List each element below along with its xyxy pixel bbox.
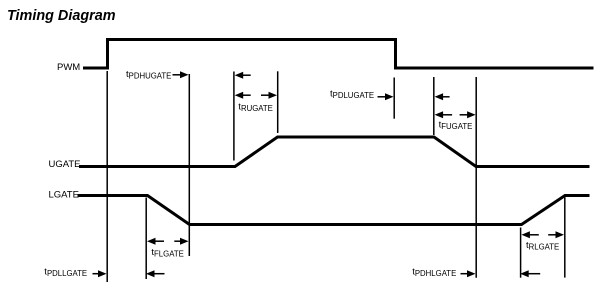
svg-text:tRUGATE: tRUGATE <box>238 102 273 114</box>
svg-text:UGATE: UGATE <box>49 159 81 170</box>
svg-text:tPDLLGATE: tPDLLGATE <box>44 267 87 279</box>
svg-text:tPDHUGATE: tPDHUGATE <box>126 69 171 81</box>
svg-text:PWM: PWM <box>57 62 80 73</box>
svg-text:tPDLUGATE: tPDLUGATE <box>330 89 374 101</box>
svg-text:tFUGATE: tFUGATE <box>439 120 473 132</box>
svg-text:tPDHLGATE: tPDHLGATE <box>412 267 456 279</box>
svg-text:LGATE: LGATE <box>49 190 79 201</box>
svg-text:tRLGATE: tRLGATE <box>526 240 559 252</box>
svg-text:tFLGATE: tFLGATE <box>151 247 183 259</box>
